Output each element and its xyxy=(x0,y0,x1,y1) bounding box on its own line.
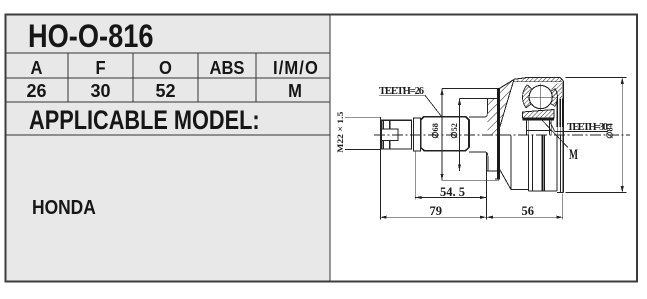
header A xyxy=(8,58,66,79)
value A 26 xyxy=(5,81,68,102)
bell right face inner line xyxy=(561,82,563,193)
table divider vertical xyxy=(329,15,331,281)
cage left section xyxy=(523,85,533,108)
value O 52 xyxy=(133,81,198,102)
applicable model HONDA xyxy=(32,197,96,220)
stem outer rectangle xyxy=(382,120,412,149)
dim 56 right extension xyxy=(562,194,564,220)
header O xyxy=(136,58,196,79)
dia84 top arrow xyxy=(621,78,624,85)
bell back face lower vertical xyxy=(487,156,489,171)
table column line 4 xyxy=(255,53,257,102)
race bore wall left pair xyxy=(526,121,528,135)
svg-text:M22 × 1.5: M22 × 1.5 xyxy=(335,112,345,153)
M leader xyxy=(541,119,568,148)
table column line 2 xyxy=(132,53,134,102)
boot groove ring 4 xyxy=(556,135,558,191)
dia52 top arrow xyxy=(458,99,461,106)
79 right arrow xyxy=(480,216,487,219)
spline cylinder xyxy=(421,117,469,151)
centerline xyxy=(374,134,630,136)
rim chamfer slope xyxy=(500,170,511,190)
wedge inner curve xyxy=(498,80,515,135)
boot groove ring 3 xyxy=(532,135,534,191)
bell right face outer line xyxy=(563,81,565,193)
dimension lines xyxy=(379,78,627,220)
drawing texts xyxy=(335,86,615,218)
table column line 1 xyxy=(67,53,69,102)
dia52 dim line xyxy=(459,99,461,171)
table line under header row xyxy=(6,77,330,79)
table line under title xyxy=(6,52,330,54)
spline minor line xyxy=(527,130,552,132)
dia84 top extension xyxy=(566,77,627,79)
header ABS xyxy=(200,58,253,79)
bell back face upper vertical xyxy=(486,99,488,114)
top wall hatched band xyxy=(514,78,563,82)
svg-text:54. 5: 54. 5 xyxy=(440,185,465,199)
dia68 bottom arrow xyxy=(440,174,443,181)
table line under value row xyxy=(6,101,330,103)
dia84 bottom arrow xyxy=(621,186,624,193)
value I/M/O M xyxy=(262,81,328,102)
56 left arrow xyxy=(487,216,494,219)
svg-text:79: 79 xyxy=(430,204,443,218)
boot seat top line xyxy=(469,114,487,118)
dia84 bottom extension xyxy=(566,192,627,194)
dia68 top connector xyxy=(442,88,498,90)
cage right section xyxy=(550,89,557,107)
washer left bold line xyxy=(382,120,384,149)
stub spline hatch xyxy=(551,82,562,98)
thread size pointer line M22 top xyxy=(345,116,381,118)
dia68 connector rise xyxy=(498,176,500,180)
clamp ring bold pair xyxy=(541,135,542,191)
teeth30 underline xyxy=(555,131,608,133)
left data table gray panel xyxy=(6,15,330,281)
part number HO-O-816 xyxy=(28,18,153,55)
79 left arrow xyxy=(380,216,387,219)
ball vertical centerline xyxy=(540,83,542,111)
dim 54.5 line xyxy=(415,197,486,199)
ball horizontal centerline xyxy=(527,96,555,98)
neck rect xyxy=(413,118,420,151)
label APPLICABLE MODEL: xyxy=(29,105,260,136)
stub spline bars xyxy=(556,99,558,128)
inner race hatched block xyxy=(523,110,555,119)
dia52 top connector xyxy=(460,98,496,100)
header F xyxy=(71,58,131,79)
svg-text:∅52: ∅52 xyxy=(449,123,459,139)
stake slot rect xyxy=(382,129,399,141)
bell outer top slope xyxy=(500,78,564,89)
teeth26 leader xyxy=(379,95,442,116)
groove bottom a xyxy=(511,189,528,191)
dim 54.5 left extension xyxy=(414,151,416,200)
dia68 bottom connector xyxy=(442,179,499,181)
value F 30 xyxy=(68,81,133,102)
boot groove ring 2 xyxy=(527,135,529,191)
washer right bold line xyxy=(389,120,391,149)
dia52 bottom arrow xyxy=(458,164,461,171)
dim 56 line xyxy=(487,216,563,218)
spline bore lines to centerline xyxy=(556,127,558,134)
bell inner ceiling line xyxy=(514,81,563,83)
svg-text:TEETH=30: TEETH=30 xyxy=(567,122,608,133)
svg-text:∅84: ∅84 xyxy=(605,123,615,139)
table column line 3 xyxy=(197,53,199,102)
svg-text:TEETH=26: TEETH=26 xyxy=(379,86,424,97)
boot groove ring 1 xyxy=(510,135,512,189)
shared extension line x486.5 xyxy=(486,153,488,220)
rim foot tick xyxy=(495,178,497,180)
54.5 left arrow xyxy=(415,196,422,199)
inner race bold bar xyxy=(523,118,555,121)
table line under applicable model xyxy=(6,134,330,136)
bell back face top edge xyxy=(487,98,500,100)
bell back face bottom edge xyxy=(487,170,499,172)
dia68 top arrow xyxy=(440,89,443,96)
svg-text:∅68: ∅68 xyxy=(430,123,440,139)
dia68 dim line xyxy=(441,89,443,181)
teeth30 leader xyxy=(548,119,555,132)
54.5 right arrow xyxy=(480,196,487,199)
boot groove ring 5 xyxy=(560,135,562,192)
thread runout line xyxy=(412,120,414,149)
bell rim bold bar xyxy=(497,88,500,179)
dim 79 left extension xyxy=(380,117,382,219)
dia84 dim line xyxy=(621,78,623,193)
bell wall hatched wedge xyxy=(487,80,514,135)
groove bottom c xyxy=(557,191,564,193)
boot seat bottom line xyxy=(469,152,488,156)
header I/M/O xyxy=(263,58,329,79)
svg-text:56: 56 xyxy=(522,204,535,218)
race bore wall right pair xyxy=(549,121,551,135)
groove bottom b xyxy=(528,190,556,192)
dim 79 line xyxy=(380,216,487,218)
svg-text:M: M xyxy=(569,147,578,163)
ball xyxy=(529,86,552,109)
thread size pointer line M22 bottom xyxy=(345,148,381,150)
56 right arrow xyxy=(556,216,563,219)
